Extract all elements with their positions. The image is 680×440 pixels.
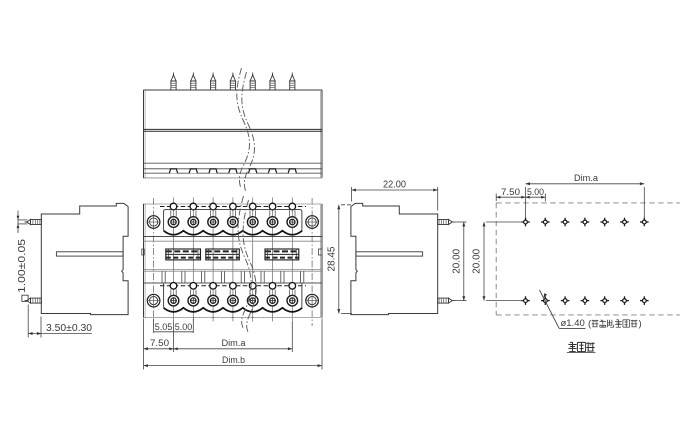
svg-text:5.00: 5.00 <box>175 322 193 332</box>
svg-text:Dim.a: Dim.a <box>574 173 599 184</box>
svg-text:20.00: 20.00 <box>472 248 483 273</box>
svg-text:28.45: 28.45 <box>327 246 338 271</box>
svg-text:3.50±0.30: 3.50±0.30 <box>46 323 92 334</box>
svg-text:ø1.40: ø1.40 <box>561 318 585 329</box>
svg-text:7.50: 7.50 <box>150 338 169 349</box>
svg-text:5.00: 5.00 <box>527 187 544 198</box>
svg-text:7.50: 7.50 <box>501 187 520 198</box>
svg-text:): ) <box>639 319 642 330</box>
svg-text:5.05: 5.05 <box>155 322 173 332</box>
svg-text:1.00±0.05: 1.00±0.05 <box>17 239 28 293</box>
svg-text:20.00: 20.00 <box>451 248 462 273</box>
svg-text:Dim.a: Dim.a <box>222 338 247 349</box>
svg-text:Dim.b: Dim.b <box>222 355 245 366</box>
svg-text:22.00: 22.00 <box>383 180 406 191</box>
